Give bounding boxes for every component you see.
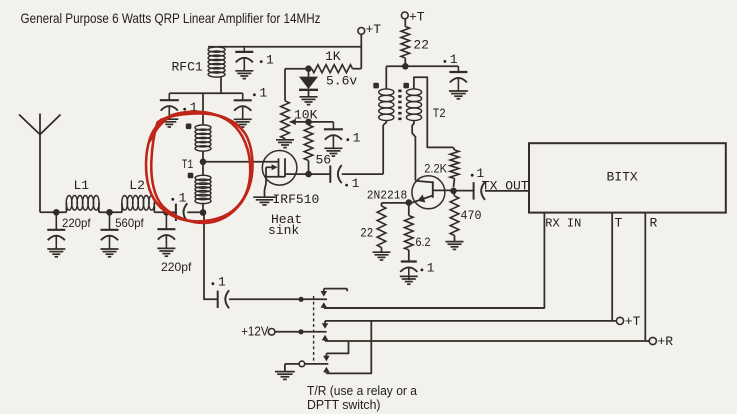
terminal +12V [268,329,275,336]
node T1 bottom junction [200,209,207,216]
switch sec3 upper throw [325,353,327,356]
label .1 series filter [171,198,174,201]
svg-text:5.6v: 5.6v [326,74,357,89]
capacitor .1 under 6.2 [401,260,417,262]
ground for 220pf #2 [157,247,175,249]
wire L1 to L2 [99,211,122,213]
label .1 bus-left [183,108,186,111]
label .1 top [260,60,263,63]
svg-text:22: 22 [360,227,373,241]
svg-text:+T: +T [625,314,641,329]
node L1-L2 junction [106,209,113,216]
svg-text:1: 1 [218,275,226,290]
svg-text:L2: L2 [129,178,145,193]
switch pole 3 terminal [299,361,305,367]
T2 left winding [385,66,387,89]
label .1 T/R [212,282,215,285]
capacitor 560pf [109,212,111,230]
capacitor 220pf #2 [165,212,167,229]
ground for .1 node B [324,147,342,149]
resistor 470 [454,191,455,196]
node 2N2218 base junction [450,188,457,195]
wire crossover to sec3 lower [326,321,371,374]
switch sec1 lower throw [321,302,328,308]
potentiometer 10K [284,69,286,101]
terminal +T supply2 [401,12,408,19]
ground for .1 T2 right [449,90,468,92]
wire cap to switch pole 1 [229,298,327,300]
ground for IRF510 source [253,196,276,198]
T1 phase dot upper [186,124,192,130]
capacitor .1 T2 right [457,66,459,72]
svg-text:L1: L1 [74,178,90,193]
svg-text:General Purpose 6 Watts QRP Li: General Purpose 6 Watts QRP Linear Ampli… [21,10,321,26]
label .1 T2 right [444,60,447,63]
inductor RFC1 [208,47,225,52]
antenna [19,115,40,135]
transformer T1 lower winding [202,162,204,176]
ground for .1 bus-right [234,118,252,120]
capacitor .1 bus-left [168,93,170,100]
capacitor .1 node B [332,122,334,129]
svg-text:1: 1 [266,52,274,67]
svg-text:+12V: +12V [241,325,269,339]
zener diode 5.6v [308,69,310,77]
wire node A to 10K [285,68,309,70]
node L2 output junction [163,209,170,216]
red annotation tail [150,116,172,142]
label .1 bus-right [253,93,256,96]
2N2218 base bar [432,181,434,198]
2N2218 collector lead [415,181,432,183]
capacitor .1 top [243,47,245,52]
switch sec2 upper throw [324,321,326,324]
svg-text:TX OUT: TX OUT [482,178,529,193]
resistor 1K [312,65,353,73]
capacitor .1 T/R [217,291,219,308]
svg-text:1K: 1K [325,49,341,64]
node T1 center tap [200,159,207,166]
capacitor .1 series filter [175,204,177,221]
svg-text:1: 1 [259,86,267,101]
svg-text:T/R (use a relay or a: T/R (use a relay or a [307,384,417,398]
ground for .1 under 6.2 [400,275,418,277]
wire supply to T2 [386,65,458,67]
node 2N2218 emitter junction [406,199,413,206]
wire +T line [325,320,616,322]
red annotation loop 2 [146,112,250,222]
wire emitter to 22 [382,202,409,204]
T2 right bottom link [412,121,415,181]
node A bias junction [305,65,312,72]
T2 right top link [414,77,453,147]
svg-text:T1: T1 [182,158,194,172]
wire +R line [325,340,649,342]
ground for 560pf [101,248,119,250]
node switch pole 1 [299,297,304,302]
node antenna-L1 junction [53,209,60,216]
svg-text:R: R [650,216,658,231]
T2 core dashes [398,90,401,121]
svg-text:1: 1 [427,261,435,276]
transistor IRF510 body [262,151,297,186]
inductor L1 [66,196,72,211]
wire RX IN [324,213,545,308]
wire T pin down [611,213,613,321]
svg-text:RX IN: RX IN [545,216,581,230]
wire T1 center to IRF510 gate [203,161,279,163]
svg-text:6.2: 6.2 [416,235,431,249]
resistor 22 supply [404,19,406,27]
terminal +R [649,337,656,344]
wire branch to sec3 upper [326,341,348,353]
wire base to TX cap [454,190,474,192]
wire R pin down [644,213,646,341]
svg-text:2.2K: 2.2K [424,162,447,176]
svg-text:T2: T2 [433,107,446,121]
2N2218 emitter lead [409,196,433,203]
svg-text:560pf: 560pf [115,216,144,230]
T2 right winding [406,89,421,95]
node switch pole 2 [298,329,303,334]
wire cap to T2 secondary [342,173,384,175]
svg-text:sink: sink [268,223,299,238]
svg-text:+T: +T [409,10,425,25]
resistor 2.2K [453,147,454,150]
label .1 TX OUT [471,174,474,177]
svg-text:T: T [615,216,623,231]
svg-text:2N2218: 2N2218 [367,189,408,203]
capacitor .1 TX OUT [473,182,475,199]
wire pole 3 [305,363,329,365]
resistor 22 emitter [381,203,383,206]
svg-text:BITX: BITX [607,170,638,185]
wire L2 to cap [154,211,176,213]
wire cap to T1 bottom [187,211,203,213]
T2 phase dot right [403,83,409,89]
svg-text:RFC1: RFC1 [172,60,203,75]
wire +12V to pole 2 [275,331,327,333]
terminal +T bottom [616,317,623,324]
transformer T1 upper winding [202,93,204,125]
svg-text:1: 1 [353,130,361,145]
terminal +T bias [358,28,365,35]
capacitor 220pf #1 [55,212,57,230]
switch sec3 lower throw [323,367,330,373]
switch sec1 upper throw [324,288,347,290]
switch dashed linkage [313,296,315,364]
wire 1K to +T [360,34,362,68]
IRF510 channel bar [284,158,286,177]
ground for 22 emitter [373,251,391,253]
IRF510 bottom tie [266,176,285,178]
svg-text:220pf: 220pf [161,260,192,274]
ground for zener [300,96,318,98]
svg-text:IRF510: IRF510 [273,192,320,207]
node C junction [305,171,312,178]
ground for pole 3 [275,371,295,373]
wire T1-bottom down to switch [204,213,218,300]
T1 phase dot lower [188,173,194,179]
capacitor .1 bus-right [242,93,244,100]
label .1 under 6.2 [421,269,424,272]
ground for 10K [276,139,294,141]
svg-text:220pf: 220pf [62,216,91,230]
svg-text:22: 22 [413,38,429,53]
label .1 gate [345,184,348,187]
ground for .1 top [235,70,253,72]
wire antenna to L1 [40,211,66,213]
top supply bus [208,46,361,48]
capacitor .1 gate [329,165,331,182]
resistor 56 [304,125,313,161]
svg-text:56: 56 [316,153,332,168]
svg-text:470: 470 [461,209,482,223]
resistor 6.2 [408,203,410,216]
ground for 470 [446,241,464,243]
red annotation loop 1 [151,113,252,222]
inductor L2 [122,196,128,211]
svg-text:DPTT switch): DPTT switch) [307,398,381,412]
IRF510 gate bar [278,158,280,177]
wire node C to cap [309,173,331,175]
IRF510 source lead [265,167,267,183]
bus under RFC1 [169,92,242,94]
svg-text:+T: +T [366,22,382,37]
svg-text:1: 1 [179,190,187,205]
label .1 node B [346,138,349,141]
T2 phase dot left [373,83,379,89]
BITX box [529,143,726,212]
switch sec2 lower throw [322,335,329,341]
svg-text:1: 1 [352,176,360,191]
IRF510 drain wire [285,173,309,175]
wire TX OUT to BITX [485,190,529,192]
ground for .1 bus-left [160,118,178,120]
transistor 2N2218 body [412,176,445,209]
svg-text:1: 1 [450,52,458,67]
node T2 supply junction [402,63,409,70]
2N2218 base wire [433,189,454,191]
IRF510 source arrow [266,166,276,168]
10K wiper arrow [290,121,334,123]
svg-text:+R: +R [658,334,674,349]
node B wiper junction [305,119,312,126]
ground for 220pf #1 [47,248,65,250]
